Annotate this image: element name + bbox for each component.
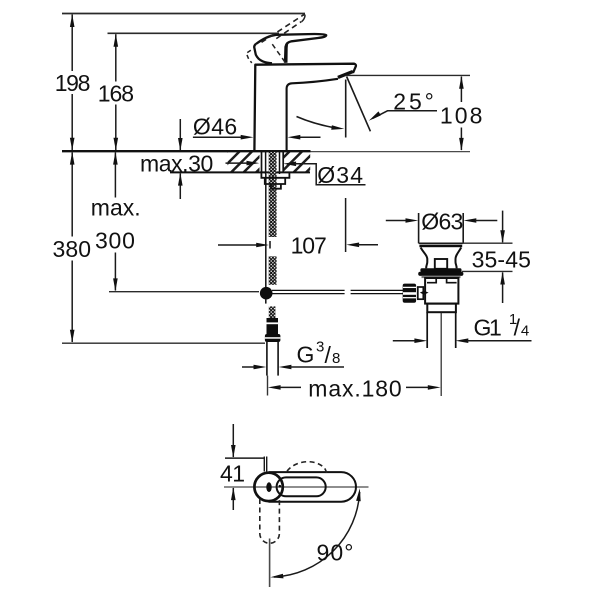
svg-text:max.: max. bbox=[91, 194, 141, 220]
top view centerline vertical upper bbox=[269, 539, 271, 588]
spray angle 25 line bbox=[347, 77, 371, 132]
svg-text:107: 107 bbox=[291, 233, 327, 259]
svg-text:max.180: max.180 bbox=[308, 376, 401, 402]
reference line pop-up rod level bbox=[109, 291, 259, 293]
spray stream line bbox=[345, 80, 347, 138]
flexible hose lower section bbox=[269, 306, 276, 321]
reference line lever rest height bbox=[108, 32, 280, 34]
dimension max.180 bbox=[268, 385, 281, 390]
aerator bbox=[338, 72, 353, 78]
svg-text:300: 300 bbox=[95, 228, 135, 254]
faucet lever bbox=[256, 34, 326, 63]
drain flange trumpet bbox=[421, 248, 428, 269]
pop-up pull rod bbox=[265, 174, 267, 288]
drain body bbox=[425, 278, 458, 304]
dimension Ø34 bbox=[226, 162, 248, 164]
dimension 90 degrees bbox=[274, 492, 360, 577]
svg-text:8: 8 bbox=[332, 350, 340, 367]
dimension 35-45 bbox=[462, 242, 513, 244]
dimension 41 bbox=[225, 457, 264, 459]
pop-up horizontal rod bbox=[272, 290, 404, 293]
dimension 198 bbox=[71, 15, 73, 151]
faucet lever raised dashed bbox=[262, 15, 304, 43]
svg-text:380: 380 bbox=[53, 236, 92, 262]
top view cartridge dot bbox=[266, 482, 271, 492]
svg-text:Ø34: Ø34 bbox=[317, 162, 363, 188]
mounting shank through countertop bbox=[261, 151, 263, 172]
drain tailpipe bbox=[426, 312, 428, 348]
svg-text:90°: 90° bbox=[317, 539, 354, 565]
svg-text:/: / bbox=[325, 342, 332, 368]
pop-up ball joint bbox=[260, 287, 273, 300]
svg-text:/: / bbox=[514, 315, 521, 341]
top view lever down dashed bbox=[260, 499, 280, 543]
threaded rod bbox=[269, 152, 277, 237]
dimension max.300 bbox=[114, 153, 116, 291]
svg-text:3: 3 bbox=[316, 339, 324, 356]
countertop hatched section bbox=[205, 151, 327, 173]
svg-text:Ø46: Ø46 bbox=[193, 114, 237, 140]
dimension 108 bbox=[346, 74, 471, 76]
svg-text:25°: 25° bbox=[393, 88, 434, 114]
drain gasket bbox=[420, 268, 461, 272]
svg-text:168: 168 bbox=[98, 81, 134, 107]
svg-text:4: 4 bbox=[521, 323, 529, 340]
drain stem nub bbox=[435, 259, 447, 269]
reference line top lever max height bbox=[62, 13, 305, 15]
svg-text:35-45: 35-45 bbox=[472, 247, 531, 273]
knob connector bbox=[418, 287, 424, 299]
swivel curved arrow bbox=[297, 117, 338, 129]
drain knurled knob bbox=[403, 284, 416, 303]
svg-text:41: 41 bbox=[220, 461, 245, 487]
lever down-position ghost dashes bbox=[246, 50, 252, 63]
svg-text:Ø63: Ø63 bbox=[421, 209, 463, 235]
dimension 168 bbox=[115, 34, 117, 150]
top view centerline horizontal bbox=[224, 486, 369, 488]
dimension G1 1/4 bbox=[393, 340, 415, 342]
top view handle inner bbox=[277, 477, 326, 496]
svg-text:198: 198 bbox=[55, 70, 91, 96]
svg-text:max.30: max.30 bbox=[140, 151, 213, 177]
top view lever outline bbox=[269, 472, 356, 502]
hose nut G3/8 bbox=[265, 334, 281, 342]
svg-text:108: 108 bbox=[440, 103, 483, 129]
washer and nuts under countertop bbox=[261, 173, 289, 178]
svg-text:G1: G1 bbox=[474, 315, 502, 341]
hose tail tube bbox=[266, 342, 268, 376]
dimension 107 bbox=[218, 244, 257, 246]
drain centerline bbox=[440, 313, 442, 396]
drain lower body bbox=[427, 304, 456, 313]
lever pin bbox=[420, 291, 429, 295]
drain seal gray bbox=[422, 276, 461, 278]
top view handle swung dashed arc bbox=[287, 462, 327, 477]
svg-text:G: G bbox=[297, 342, 315, 368]
faucet body bbox=[254, 64, 356, 151]
reference line hose end bbox=[62, 342, 265, 344]
drain cap sides bbox=[418, 213, 420, 243]
dimension 380 bbox=[71, 153, 73, 343]
top view body circle bbox=[254, 473, 282, 501]
25 degree leader bbox=[373, 111, 438, 119]
dimension G3/8 bbox=[242, 366, 254, 368]
drain cap lip bbox=[419, 245, 462, 248]
